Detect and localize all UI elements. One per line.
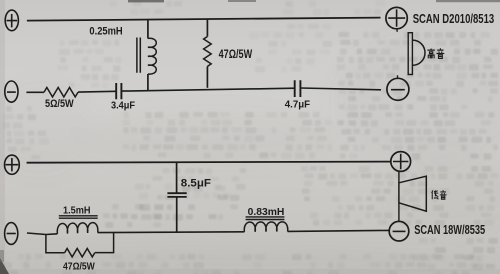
tweeter driver (dome) [408,33,425,75]
svg-text:47Ω/5W: 47Ω/5W [219,49,253,61]
wire woofer cone to − [398,203,400,221]
terminal + (bottom-section input) [4,155,19,174]
terminal − (bottom-left input) [5,223,18,245]
svg-text:8.5μF: 8.5μF [181,178,211,190]
svg-text:0.25mH: 0.25mH [89,25,122,37]
wire stub above tweeter − [397,75,399,78]
wire stub below tweeter + [396,29,398,32]
woofer driver (cone) [399,176,426,211]
core of L2 (double bars) [59,216,98,218]
label 低音 (bass) [432,190,439,199]
capacitor C2 4.7μF (series) [295,80,301,97]
inductor L1 0.25mH (shunt, iron core) [148,19,156,90]
terminal − (woofer) [389,221,409,241]
wire C2 to tweeter − [301,88,381,90]
inductor L2 1.5mH (series, iron core) [57,223,98,234]
core of L3 (double bars) [246,217,285,220]
terminal + (tweeter) [386,7,407,28]
svg-text:SCAN 18W/8535: SCAN 18W/8535 [414,222,485,237]
svg-text:3.4μF: 3.4μF [111,100,136,112]
svg-text:0.83mH: 0.83mH [248,206,285,218]
wire L3 to woofer − [288,230,390,231]
capacitor C3 8.5μF (shunt) [167,162,186,233]
inductor L3 0.83mH (series, iron core) [244,222,287,232]
label 高音 (treble) [427,48,434,58]
wire: top positive rail [27,18,381,21]
svg-text:47Ω/5W: 47Ω/5W [63,261,95,273]
svg-text:SCAN D2010/8513: SCAN D2010/8513 [413,11,495,26]
svg-text:4.7μF: 4.7μF [285,98,311,110]
terminal − (bottom-left input) [5,81,18,102]
capacitor C1 3.4μF (series) [116,83,121,99]
terminal + (top-left input) [5,10,18,31]
svg-text:5Ω/5W: 5Ω/5W [45,98,74,110]
terminal + (woofer) [391,152,411,172]
wire: positive rail [27,162,391,163]
resistor R1 47Ω/5W (shunt) [204,19,212,88]
core of L1 (double bars) [137,38,140,73]
wire: negative rail to parallel block [27,233,57,235]
wire block to L3 [98,231,245,234]
resistor R2 5Ω/5W (series) [44,88,78,97]
wire + to woofer cone [398,172,400,183]
wire C1 to C2 (junctions of L1, R1) [122,88,295,91]
terminal − (tweeter) [387,78,409,100]
resistor R3 47Ω/5W (parallel with L2) [46,233,114,257]
svg-text:1.5mH: 1.5mH [63,205,91,217]
wire: negative rail to R2 [26,91,44,93]
wire R2 to C1 [78,90,116,93]
